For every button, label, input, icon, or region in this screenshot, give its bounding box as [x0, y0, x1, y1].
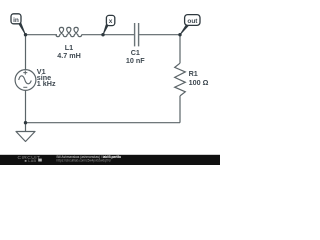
V1 minus sign	[23, 86, 27, 88]
capacitor C1 plates	[135, 23, 139, 46]
wire left vertical top (in dot to V1)	[25, 35, 27, 70]
junction dot bottom	[24, 121, 27, 124]
wire right vertical (out to R1 top)	[179, 35, 181, 64]
wire bottom horizontal	[26, 122, 181, 124]
voltage source V1 circle	[15, 70, 36, 91]
node in box	[11, 14, 21, 24]
node x box	[106, 15, 114, 25]
svg-text:in: in	[13, 17, 19, 24]
V1 sine wave	[19, 76, 32, 84]
wire ground stem	[25, 123, 27, 132]
wire C1 to out corner	[139, 34, 180, 36]
inductor L1 coil	[56, 27, 82, 36]
footer logo icon	[38, 159, 42, 162]
node out pointer	[180, 25, 188, 35]
svg-text:4.7 mH: 4.7 mH	[57, 51, 81, 60]
svg-text:x: x	[109, 18, 113, 25]
svg-text:10 nF: 10 nF	[126, 56, 145, 65]
junction dot in	[24, 33, 27, 36]
node in pointer	[19, 23, 26, 35]
svg-text:out: out	[187, 18, 198, 25]
footer black bar	[0, 155, 220, 165]
junction dot out	[178, 33, 181, 36]
wire left vertical bottom (V1 to bottom junction)	[25, 91, 27, 123]
resistor R1 zigzag	[175, 63, 186, 96]
svg-text:1 kHz: 1 kHz	[37, 79, 56, 88]
wire top-left horizontal (in to L1)	[26, 34, 58, 36]
svg-text:100 Ω: 100 Ω	[189, 78, 209, 87]
svg-text:R1: R1	[189, 69, 198, 78]
ground	[16, 132, 35, 142]
node out box	[185, 15, 200, 26]
junction dot x	[101, 33, 104, 36]
node x pointer	[103, 25, 108, 35]
wire L1 to C1	[82, 34, 135, 36]
V1 plus sign	[23, 71, 27, 75]
svg-text:https://circuitlab.com/c5w4pvb: https://circuitlab.com/c5w4pvb2wdqt7e/	[57, 159, 112, 163]
svg-text:■ LAB: ■ LAB	[25, 159, 37, 163]
wire R1 bottom to corner	[179, 96, 181, 123]
